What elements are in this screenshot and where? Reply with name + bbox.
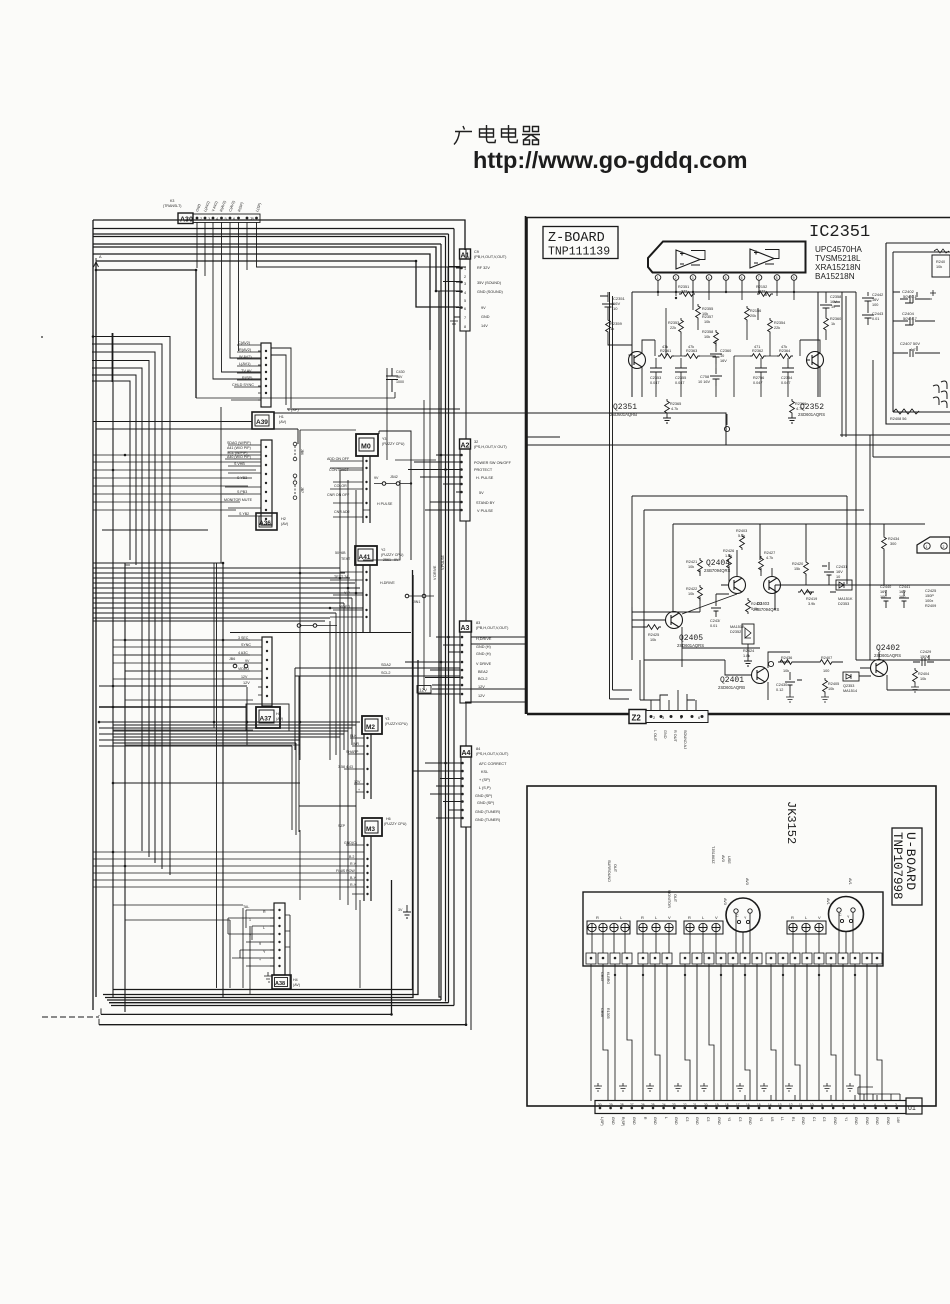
resistor R2436: [778, 656, 794, 673]
svg-text:Y2: Y2: [381, 548, 385, 552]
svg-text:GND: GND: [674, 1117, 678, 1125]
svg-text:R2404: R2404: [918, 672, 929, 676]
wire lower cluster links: [632, 566, 950, 700]
svg-text:0.01: 0.01: [872, 317, 879, 321]
svg-text:3: 3: [692, 276, 694, 280]
svg-text:15: 15: [757, 1103, 761, 1107]
M3 strip: [93, 836, 371, 901]
U-board label box: [890, 828, 922, 905]
svg-text:35V (SOUND): 35V (SOUND): [477, 281, 502, 285]
wire A4 bottom drop: [466, 827, 471, 1030]
wire A3 pin lines: [405, 637, 460, 694]
svg-text:COLOR: COLOR: [334, 484, 347, 488]
svg-text:K3: K3: [170, 199, 174, 203]
capacitor C2351: [600, 292, 626, 318]
svg-text:1: 1: [657, 276, 659, 280]
svg-text:(PS,H,OUT,V,OUT): (PS,H,OUT,V,OUT): [476, 752, 509, 756]
svg-text:GND: GND: [653, 1117, 657, 1125]
AV2 strip labels: [232, 341, 267, 394]
svg-text:16V: 16V: [899, 590, 906, 594]
ground symbols above strip: [594, 1083, 854, 1091]
resistor R2424: [743, 644, 754, 666]
svg-text:83: 83: [476, 621, 480, 625]
wire right area horizontals: [840, 292, 950, 435]
diode D2353 boxed: [843, 672, 859, 693]
svg-text:KLBRG: KLBRG: [606, 972, 610, 984]
Z2 rotated labels: [653, 730, 687, 749]
connector Z2: [629, 710, 708, 724]
svg-text:10k: 10k: [920, 677, 926, 681]
svg-text:R2436: R2436: [781, 656, 792, 660]
svg-text:C2360: C2360: [720, 349, 731, 353]
svg-text:8: 8: [464, 325, 466, 329]
svg-text:100: 100: [823, 669, 829, 673]
resistor R2364: [777, 345, 793, 358]
svg-text:H,DRIVE: H,DRIVE: [476, 637, 492, 641]
resistor R2407: [818, 656, 834, 673]
svg-text:5.1k: 5.1k: [751, 607, 758, 611]
svg-text:R2405: R2405: [828, 682, 839, 686]
svg-text:(FUZZY CPU): (FUZZY CPU): [382, 442, 405, 446]
svg-text:10k: 10k: [650, 638, 656, 642]
diode MA151K boxed: [836, 580, 853, 606]
svg-text:GND: GND: [481, 315, 490, 319]
svg-text:R2427: R2427: [764, 551, 775, 555]
svg-text:0.01: 0.01: [710, 624, 717, 628]
svg-text:IC2351: IC2351: [809, 223, 870, 242]
svg-text:84: 84: [476, 747, 480, 751]
svg-text:A4: A4: [462, 750, 471, 757]
svg-text:10k: 10k: [704, 320, 710, 324]
Z-board border: [526, 216, 950, 714]
IC pins 1-9: [655, 275, 797, 292]
svg-text:2: 2: [943, 545, 945, 549]
svg-text:R2358: R2358: [702, 330, 713, 334]
Q2405 label: [677, 634, 704, 648]
svg-text:Y3: Y3: [385, 717, 389, 721]
svg-text:H4: H4: [293, 978, 298, 982]
svg-text:27: 27: [630, 1103, 634, 1107]
wire left edge vertical: [93, 220, 96, 1010]
svg-text:R(AV2): R(AV2): [239, 348, 252, 352]
connector A41: [355, 546, 404, 565]
svg-text:L OUT: L OUT: [653, 730, 657, 742]
svg-text:R2424: R2424: [743, 649, 754, 653]
svg-text:R2421: R2421: [686, 560, 697, 564]
svg-text:W AV2): W AV2): [239, 355, 252, 359]
svg-text:12V: 12V: [243, 681, 250, 685]
svg-text:KSL: KSL: [481, 770, 488, 774]
svg-text:GND: GND: [801, 1117, 805, 1125]
rotated label SURROUND OUT: [607, 860, 617, 882]
svg-text:7: 7: [842, 1103, 844, 1107]
strip rotated labels below: [600, 1117, 900, 1126]
svg-text:H1: H1: [279, 415, 284, 419]
svg-text:SYNC: SYNC: [241, 643, 251, 647]
svg-text:20k: 20k: [750, 314, 756, 318]
svg-text:12V: 12V: [478, 694, 485, 698]
svg-text:L (SP): L (SP): [288, 408, 299, 412]
svg-text:(AV): (AV): [281, 522, 289, 526]
svg-text:GND (SP): GND (SP): [475, 794, 493, 798]
svg-text:C(AV2): C(AV2): [238, 341, 251, 345]
A36 labels: [224, 441, 253, 516]
svg-text:10k: 10k: [828, 687, 834, 691]
jumper JB6: [233, 664, 248, 668]
svg-text:A37: A37: [260, 716, 272, 723]
svg-text:12V: 12V: [478, 685, 485, 689]
svg-text:3V: 3V: [398, 908, 403, 912]
resistor R2351: [675, 285, 695, 299]
connector A37: [246, 704, 289, 731]
svg-text:Y1: Y1: [844, 1117, 848, 1121]
svg-text:1.8k: 1.8k: [725, 554, 732, 558]
svg-text:V PULSE: V PULSE: [477, 509, 494, 513]
svg-text:9V: 9V: [374, 476, 379, 480]
svg-text:7: 7: [758, 276, 760, 280]
svg-text:R240: R240: [936, 260, 945, 264]
svg-text:A41 (W/O PIP): A41 (W/O PIP): [227, 446, 251, 450]
svg-text:0.047: 0.047: [650, 381, 660, 385]
svg-text:U3: U3: [770, 1117, 774, 1121]
svg-text:M3: M3: [366, 826, 375, 833]
capacitor C2430: [776, 672, 802, 702]
svg-text:4: 4: [464, 291, 466, 295]
capacitor C2402: [900, 289, 936, 303]
svg-text:Y3: Y3: [759, 1117, 763, 1121]
A38 labels: [243, 905, 266, 962]
svg-text:L (S,P): L (S,P): [479, 786, 491, 790]
A1 pin numbers: [464, 267, 466, 329]
svg-text:SZP: SZP: [338, 824, 346, 828]
right sub-box inner: [893, 252, 950, 412]
svg-text:11: 11: [799, 1103, 803, 1107]
strip pin dots: [599, 1107, 898, 1110]
transistor Q2404: [721, 550, 746, 594]
svg-text:MONITOR MUTE: MONITOR MUTE: [224, 498, 253, 502]
svg-text:(AV): (AV): [276, 717, 284, 721]
svg-text:30: 30: [598, 1103, 602, 1107]
wire amp2 mesh: [734, 340, 800, 397]
resistor R2353: [668, 318, 683, 334]
IC rail junction dots: [657, 291, 795, 293]
svg-text:0.12: 0.12: [776, 688, 783, 692]
capacitor C2440: [880, 585, 891, 608]
svg-text:A30: A30: [180, 217, 193, 224]
svg-text:D2353: D2353: [838, 602, 849, 606]
svg-text:V: V: [668, 915, 671, 920]
wire SDA2 SCL2 lines: [295, 668, 460, 755]
svg-text:5.1k: 5.1k: [738, 534, 745, 538]
svg-text:16V: 16V: [396, 375, 403, 379]
svg-text:J542: J542: [390, 475, 398, 479]
svg-text:16V: 16V: [720, 359, 727, 363]
svg-text:50+6B: 50+6B: [335, 551, 346, 555]
wire M0 top link: [379, 431, 411, 560]
junction dots left block: [92, 260, 468, 1026]
svg-text:1.8k: 1.8k: [743, 654, 750, 658]
svg-text:BEA2: BEA2: [478, 670, 488, 674]
svg-text:GND: GND: [611, 1117, 615, 1125]
svg-text:BLK: BLK: [350, 734, 357, 738]
svg-text:GND: GND: [875, 1117, 879, 1125]
svg-text:(PB,H,OUT,V,OUT): (PB,H,OUT,V,OUT): [476, 626, 509, 630]
svg-text:16V: 16V: [872, 298, 879, 302]
rca jacks av1: [789, 923, 823, 931]
resistor R2419: [798, 590, 817, 606]
C2425 R2409 labels: [925, 589, 936, 608]
svg-text:C9: C9: [474, 250, 479, 254]
svg-text:H3: H3: [276, 712, 281, 716]
wire mid dense bundle: [93, 563, 363, 621]
Q2402 label: [874, 644, 901, 658]
svg-text:GND: GND: [663, 730, 667, 739]
svg-text:GND (TUNER): GND (TUNER): [475, 810, 501, 814]
svg-text:H2: H2: [281, 517, 286, 521]
wire lower-mid verticals: [214, 407, 356, 988]
svg-text:2: 2: [675, 276, 677, 280]
svg-text:R2422: R2422: [686, 587, 697, 591]
svg-text:BA15218N: BA15218N: [815, 272, 855, 281]
svg-text:22k: 22k: [670, 326, 676, 330]
svg-text:23: 23: [672, 1103, 676, 1107]
svg-text:TV AV: TV AV: [241, 369, 252, 373]
svg-text:http://www.go-gddq.com: http://www.go-gddq.com: [473, 147, 748, 173]
transistor Q2401: [744, 660, 774, 700]
svg-text:R2425: R2425: [648, 633, 659, 637]
svg-text:5: 5: [464, 299, 466, 303]
resistor R2357 R2358: [702, 315, 718, 346]
wire diagonal mesh center: [196, 261, 436, 690]
svg-text:SOUND AJ: SOUND AJ: [683, 730, 687, 749]
Q2404 label: [704, 559, 731, 573]
capacitor C2442: [862, 292, 883, 307]
stray scan mark: [41, 336, 43, 338]
capacitor C2404: [900, 311, 922, 325]
resistor R2362: [750, 345, 766, 358]
wire mid crossing verticals: [300, 430, 356, 850]
wire zboard mid horizontals: [274, 413, 950, 510]
SYNC labels: [229, 636, 251, 679]
surround jack group box: [587, 915, 630, 934]
A2 labels: [474, 440, 512, 513]
svg-text:AV1: AV1: [848, 878, 852, 885]
svg-text:4: 4: [708, 276, 710, 280]
svg-text:AV3: AV3: [745, 878, 749, 885]
svg-text:H. PULSE: H. PULSE: [476, 476, 494, 480]
lower cluster top rail: [673, 524, 925, 612]
svg-text:GND: GND: [748, 1117, 752, 1125]
svg-text:10: 10: [831, 305, 835, 309]
svg-text:Q2351: Q2351: [613, 403, 637, 412]
svg-text:A3: A3: [461, 625, 470, 632]
svg-text:C2355: C2355: [675, 376, 686, 380]
svg-text:C3: C3: [685, 1117, 689, 1121]
M0 strip: [330, 456, 370, 523]
svg-text:C430: C430: [396, 370, 405, 374]
wire misc upper links: [658, 292, 794, 356]
wire crossing to zboard: [432, 637, 527, 702]
svg-text:12V: 12V: [419, 688, 427, 693]
svg-text:9V: 9V: [245, 659, 250, 663]
wire Q2401 base feed: [644, 660, 744, 675]
connector A39: [252, 412, 287, 429]
svg-text:7: 7: [464, 316, 466, 320]
resistor R2427: [759, 551, 776, 572]
capacitor C430: [386, 368, 405, 392]
resistor R2360: [824, 316, 842, 340]
svg-text:MONITOR: MONITOR: [667, 890, 671, 908]
wire A1 pin3 pin4: [436, 267, 460, 292]
svg-text:8: 8: [831, 1103, 833, 1107]
resistor R2355: [696, 304, 714, 320]
jumper J542: [374, 482, 412, 486]
12V box: [417, 686, 431, 694]
svg-text:12: 12: [789, 1103, 793, 1107]
gnd comb right: [858, 1087, 900, 1101]
svg-text:CNR ON OFF: CNR ON OFF: [327, 493, 350, 497]
resistor R2359: [606, 318, 632, 345]
jumper JIN1: [405, 594, 434, 598]
Q2401 label: [718, 676, 745, 690]
svg-text:4 A3C: 4 A3C: [238, 651, 248, 655]
svg-text:8: 8: [776, 276, 778, 280]
rotated label MONITOR OUT: [667, 890, 677, 908]
capacitor C2354: [781, 368, 794, 385]
wire jack drops inside panel: [592, 912, 853, 953]
M2 labels: [338, 734, 361, 792]
svg-text:10k: 10k: [783, 669, 789, 673]
svg-text:C2440: C2440: [880, 585, 891, 589]
svg-text:10: 10: [810, 1103, 814, 1107]
resistor R2423: [746, 598, 763, 614]
resistor R2408 squiggle: [890, 409, 919, 421]
svg-text:L1: L1: [780, 1117, 784, 1121]
svg-text:3: 3: [464, 282, 466, 286]
svg-text:V: V: [818, 915, 821, 920]
svg-text:R2156: R2156: [750, 309, 761, 313]
wire lower mid verticals: [300, 368, 395, 988]
svg-text:GND: GND: [854, 1117, 858, 1125]
connector A2: [456, 439, 471, 521]
jumper J small: [297, 624, 337, 628]
bottom connector strip U1: [595, 1098, 922, 1114]
svg-text:V: V: [715, 915, 718, 920]
rotated label TJB1863Z: [711, 846, 731, 864]
svg-text:6: 6: [853, 1103, 855, 1107]
connector A38 strip: [270, 903, 290, 975]
A30 top rotated pin labels: [163, 199, 262, 212]
connector AV2 strip: [231, 343, 271, 407]
svg-text:2: 2: [464, 275, 466, 279]
svg-text:H-DRIVE: H-DRIVE: [380, 581, 395, 585]
op-amp 1 feedback: [691, 251, 705, 266]
A1 labels: [474, 250, 507, 328]
svg-text:R2353: R2353: [668, 321, 679, 325]
svg-text:GND (H): GND (H): [476, 645, 491, 649]
svg-text:A40 (W/O PIP): A40 (W/O PIP): [227, 455, 251, 459]
svg-text:(AV): (AV): [293, 983, 300, 987]
svg-text:C3: C3: [738, 1117, 742, 1121]
svg-text:OUT: OUT: [673, 894, 677, 903]
resistor R2422: [686, 585, 702, 601]
svg-text:R2409: R2409: [925, 604, 936, 608]
svg-text:C758: C758: [700, 375, 709, 379]
svg-text:GND (SP): GND (SP): [477, 801, 495, 805]
svg-text:2: 2: [895, 1103, 897, 1107]
test point circle: [724, 426, 729, 431]
svg-text:WR: WR: [353, 742, 359, 746]
A30 pin numbers: [200, 216, 255, 221]
s-video DIN AV1: [829, 897, 864, 932]
resistor R2426: [723, 549, 734, 570]
svg-text:CHLD SYNC: CHLD SYNC: [232, 383, 254, 387]
svg-text:L: L: [664, 1117, 668, 1119]
resistor R2434: [882, 535, 900, 551]
svg-text:C1: C1: [812, 1117, 816, 1121]
svg-text:R OUT: R OUT: [673, 730, 677, 742]
svg-text:3.58 4.43: 3.58 4.43: [338, 765, 353, 769]
svg-text:C2431: C2431: [836, 565, 847, 569]
wire mid-left verticals: [113, 382, 223, 1012]
resistor R2420: [792, 560, 808, 576]
svg-text:R2360: R2360: [830, 317, 841, 321]
svg-text:471: 471: [754, 345, 760, 349]
ground A38: [264, 972, 272, 982]
svg-text:GND (H): GND (H): [476, 652, 491, 656]
svg-text:50V 0.1: 50V 0.1: [903, 294, 918, 299]
svg-text:L(AV1): L(AV1): [239, 362, 251, 366]
svg-text:S PB3: S PB3: [237, 490, 247, 494]
wire lower-mid dark line: [99, 706, 246, 708]
svg-text:R: R: [596, 915, 599, 920]
connector A38 box: [272, 975, 300, 989]
IC2351 part numbers: [815, 245, 862, 281]
transistor Q2402: [860, 652, 888, 690]
svg-text:16V: 16V: [880, 590, 887, 594]
svg-text:1: 1: [249, 918, 251, 922]
svg-text:0.047: 0.047: [781, 381, 791, 385]
svg-text:Z2: Z2: [632, 714, 642, 723]
svg-text:(AV): (AV): [279, 420, 287, 424]
svg-text:Q2405: Q2405: [679, 634, 703, 643]
svg-text:R2363: R2363: [686, 349, 697, 353]
svg-text:3.9k: 3.9k: [808, 602, 815, 606]
svg-text:4.7k: 4.7k: [671, 407, 678, 411]
wire A3-A4 link: [466, 521, 471, 746]
svg-text:2SD601AQRS: 2SD601AQRS: [874, 653, 901, 658]
capacitor C2356: [753, 368, 767, 385]
svg-text:GND: GND: [833, 1117, 837, 1125]
Q2352 label: [798, 403, 825, 417]
svg-text:25: 25: [651, 1103, 655, 1107]
A3 labels: [476, 621, 509, 698]
svg-text:UPC4570HA: UPC4570HA: [815, 245, 862, 254]
svg-text:3: 3: [884, 1103, 886, 1107]
resistor R2421: [686, 558, 702, 574]
rca jacks monitor: [639, 923, 673, 931]
M3 labels: [336, 841, 357, 887]
svg-text:20: 20: [704, 1103, 708, 1107]
transistor Q2351: [629, 340, 656, 397]
op-amp triangle 2: [750, 249, 774, 268]
svg-text:D2352: D2352: [730, 630, 741, 634]
svg-text:2SD601AQRB: 2SD601AQRB: [718, 685, 745, 690]
svg-text:15k: 15k: [794, 567, 800, 571]
svg-text:100: 100: [872, 303, 878, 307]
svg-text:R2408 56: R2408 56: [890, 417, 906, 421]
resistor R2366 + ground: [788, 399, 806, 423]
